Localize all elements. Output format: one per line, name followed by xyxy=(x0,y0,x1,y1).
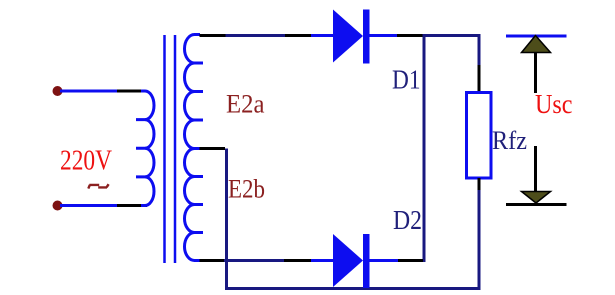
resistor Rfz body xyxy=(467,93,492,179)
wire secondary bottom navy xyxy=(224,259,284,262)
node terminal dot bottom-left xyxy=(53,201,63,211)
wire into D2 anode black xyxy=(284,259,311,262)
wire resistor bottom black xyxy=(478,178,481,190)
wire into D1 anode blue xyxy=(311,34,334,37)
secondary cusp ticks xyxy=(194,35,203,261)
Usc down arrow head xyxy=(522,192,551,204)
wire secondary top navy xyxy=(226,34,286,37)
svg-text:D2: D2 xyxy=(393,205,422,235)
wire center tap vertical navy xyxy=(225,149,228,291)
node terminal dot top-left xyxy=(53,86,63,96)
wire into D1 anode black xyxy=(285,34,311,37)
diode D2 cathode bar xyxy=(363,234,370,288)
transformer primary winding L1 xyxy=(145,91,154,206)
wire top to resistor corner navy xyxy=(423,34,481,37)
wire bottom-left blue xyxy=(60,204,117,207)
wire bottom-left black xyxy=(117,204,147,207)
svg-text:E2b: E2b xyxy=(228,175,265,204)
transformer core line 2 xyxy=(174,35,177,263)
wire bottom bus navy xyxy=(225,287,481,290)
wire top-left blue xyxy=(60,90,117,93)
diode D1 triangle xyxy=(333,10,363,63)
wire top-left black xyxy=(117,90,142,93)
Usc top reference line blue xyxy=(506,35,567,38)
wire vertical to resistor black xyxy=(478,65,481,93)
transformer secondary winding lower E2b xyxy=(185,149,195,261)
svg-text:E2a: E2a xyxy=(226,90,265,119)
wire vertical D1-D2 bus navy xyxy=(423,34,426,262)
transformer core line 1 xyxy=(163,35,166,263)
wire from D2 cathode blue xyxy=(370,259,399,262)
Usc up arrow head xyxy=(522,36,551,53)
wire from D1 cathode blue xyxy=(370,34,398,37)
wire from D1 cathode black xyxy=(397,34,423,37)
wire secondary bottom black xyxy=(200,259,225,262)
svg-text:Usc: Usc xyxy=(535,89,573,119)
wire secondary top black xyxy=(200,34,226,37)
wire from D2 cathode black xyxy=(398,259,423,262)
wire vertical to resistor navy xyxy=(478,34,481,65)
svg-text:Rfz: Rfz xyxy=(492,126,527,155)
Usc upper stem xyxy=(534,53,537,94)
wire center tap black xyxy=(200,147,226,150)
svg-text:220V: 220V xyxy=(60,146,112,177)
wire resistor bottom navy xyxy=(478,190,481,290)
transformer secondary winding upper E2a xyxy=(185,35,195,149)
Usc lower stem xyxy=(534,146,537,192)
diode D2 triangle xyxy=(333,234,363,287)
diode D1 cathode bar xyxy=(363,10,370,64)
wire into D2 anode blue xyxy=(311,259,334,262)
Usc bottom reference line black xyxy=(506,203,567,206)
label tilde ~ xyxy=(88,184,108,188)
primary cusp ticks xyxy=(136,91,146,206)
svg-text:D1: D1 xyxy=(392,65,421,95)
